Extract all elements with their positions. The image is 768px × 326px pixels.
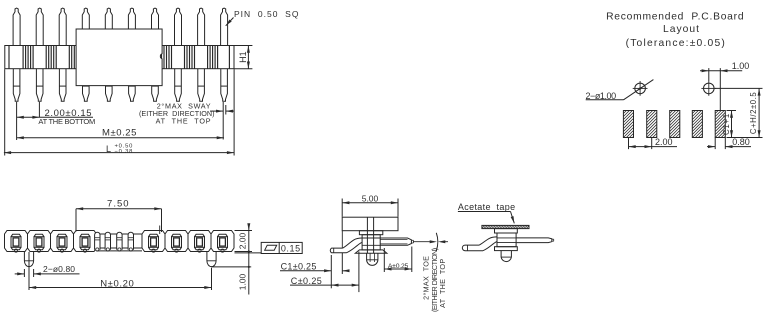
mounting peg right xyxy=(207,252,216,267)
strip segment pin 7 octagon xyxy=(142,231,165,252)
svg-text:2.00: 2.00 xyxy=(655,137,673,147)
side view solder tail right pin xyxy=(380,238,411,245)
svg-text:H1: H1 xyxy=(238,51,248,63)
svg-text:C±0.25: C±0.25 xyxy=(291,276,322,286)
svg-text:0.80: 0.80 xyxy=(732,137,750,147)
svg-text:2.00: 2.00 xyxy=(238,232,248,249)
dimension C1+1 xyxy=(731,111,733,138)
svg-text:N±0.20: N±0.20 xyxy=(100,279,134,290)
label PIN 0.50 SQ leader xyxy=(226,18,234,26)
pin 7 bottom lead xyxy=(152,69,159,102)
dimension 5.00 xyxy=(342,202,398,204)
svg-text:AT THE TOP: AT THE TOP xyxy=(438,259,447,308)
svg-text:1.00: 1.00 xyxy=(732,61,750,71)
hole circle left xyxy=(635,83,646,94)
strip segment pin 9 octagon xyxy=(188,231,211,252)
side view base plate xyxy=(355,250,387,253)
pin 4 bottom lead xyxy=(83,69,90,102)
extension housing left edge to foot xyxy=(341,231,343,248)
svg-text:1.00: 1.00 xyxy=(238,273,248,290)
flatness feature control frame xyxy=(261,242,302,253)
dimension N +/-0.20 extension line right xyxy=(211,268,213,290)
pin 10 top lead xyxy=(221,8,228,45)
dimension A +/-0.25 xyxy=(384,268,412,270)
strip segment pin 1 octagon xyxy=(5,231,28,252)
pin 9 top lead xyxy=(198,8,205,45)
svg-text:C1+1: C1+1 xyxy=(722,113,731,135)
dimension 2.00 +/-0.15 extension lines xyxy=(16,102,18,140)
dimension C +/-0.25 xyxy=(290,284,359,286)
dimension 2.00 pads xyxy=(629,146,678,148)
svg-text:−0.38: −0.38 xyxy=(115,149,134,155)
side view collar xyxy=(359,231,382,235)
dimension C1 +/-0.25 xyxy=(280,270,331,272)
pin 1 top lead xyxy=(13,8,20,45)
hole circle right xyxy=(704,83,715,94)
housing band segment lines xyxy=(9,46,229,69)
dimension C1 +/-0.25 extension lines xyxy=(330,255,332,288)
dimension 5.00 extension lines xyxy=(341,199,343,217)
pin 6 bottom lead xyxy=(129,69,136,102)
pin 5 bottom lead xyxy=(106,69,113,102)
dimension H1 extension lines xyxy=(234,45,252,47)
pin 1 bottom lead xyxy=(13,69,20,102)
mounting peg left xyxy=(24,252,33,267)
svg-text:Recommended P.C.Board: Recommended P.C.Board xyxy=(606,12,744,23)
dimension N +/-0.20 xyxy=(29,287,212,289)
break-region pin 1 xyxy=(95,232,100,250)
flatness callout leader xyxy=(235,252,262,254)
pin 8 top lead xyxy=(175,8,182,45)
side view pin through housing xyxy=(366,217,368,253)
housing band outline xyxy=(5,46,234,69)
pin 6 top lead xyxy=(128,8,135,45)
tape view mounting peg xyxy=(501,251,511,262)
svg-text:7.50: 7.50 xyxy=(107,198,130,209)
dimension 0.80 pad width extension lines xyxy=(714,138,716,150)
label acetate tape leader xyxy=(458,211,511,213)
dimension C1+1 extension lines xyxy=(727,110,737,112)
svg-text:C1±0.25: C1±0.25 xyxy=(281,261,317,271)
tape view housing cap xyxy=(495,229,518,233)
strip segment pin 1 hole detail xyxy=(11,237,21,248)
pin 7 top lead xyxy=(152,8,159,45)
dimension 7.50 xyxy=(76,208,162,210)
tape view base plate xyxy=(495,247,518,251)
hatch pattern pads xyxy=(623,111,725,138)
pin 5 top lead xyxy=(105,8,112,45)
dimension C +/-0.25 extension line xyxy=(358,252,360,293)
dimension 1.00 peg extension line xyxy=(212,266,252,268)
strip segment pin 7 hole detail xyxy=(149,237,159,248)
pin 4 top lead xyxy=(82,8,89,45)
dimension 2-dia0.80 xyxy=(15,273,25,275)
svg-text:C+H/2±0.5: C+H/2±0.5 xyxy=(749,92,758,134)
dimension L extension lines xyxy=(4,69,6,155)
strip segment pin 8 octagon xyxy=(165,231,188,252)
strip segment pin 8 hole detail xyxy=(172,237,182,248)
tape view pin level lines through body xyxy=(497,237,516,239)
dimension 2.00 and 1.00 vertical xyxy=(248,225,250,295)
svg-text:A±0.25: A±0.25 xyxy=(388,263,409,270)
pin 3 top lead xyxy=(59,8,66,45)
side view contact block xyxy=(362,235,380,250)
dimension L +0.50/-0.38 xyxy=(4,152,234,154)
dimension 2-dia0.80 extension lines xyxy=(23,269,25,277)
svg-text:Layout: Layout xyxy=(663,24,700,35)
break-region pin 2 xyxy=(105,232,110,250)
break box over middle pins xyxy=(76,29,162,86)
side view housing xyxy=(342,217,398,231)
dimension M +/-0.25 xyxy=(17,137,224,139)
svg-text:PIN 0.50 SQ: PIN 0.50 SQ xyxy=(234,9,299,19)
strip segment pin 3 octagon xyxy=(51,231,74,252)
svg-text:(Tolerance:±0.05): (Tolerance:±0.05) xyxy=(626,38,726,49)
strip segment pin 4 octagon xyxy=(74,231,97,252)
tape view body xyxy=(497,233,516,247)
strip segment pin 2 hole detail xyxy=(34,237,44,248)
dimension 0.80 pad width xyxy=(707,146,715,148)
strip segment pin 4 hole detail xyxy=(80,237,90,248)
strip segment pin 9 hole detail xyxy=(195,237,205,248)
strip segment pin 2 octagon xyxy=(28,231,51,252)
dimension A +/-0.25 extension lines xyxy=(383,248,385,272)
toe tolerance symbol xyxy=(413,241,434,243)
sway dimension ticks xyxy=(222,102,224,140)
dimension 1.00 extension lines xyxy=(708,68,710,81)
pin 2 bottom lead xyxy=(36,69,43,102)
pin 2 top lead xyxy=(36,8,43,45)
break-region pin 4 xyxy=(128,232,133,250)
dimension C+H/2 +/-0.5 xyxy=(758,88,760,137)
pin 10 bottom lead xyxy=(221,69,228,102)
dimension C+H/2 extension line xyxy=(715,87,763,89)
hole circle left leader 2-dia1.00 xyxy=(624,80,654,100)
side view mounting peg xyxy=(367,253,378,265)
side view SMT bent lead and foot xyxy=(330,238,362,253)
svg-text:5.00: 5.00 xyxy=(362,193,379,203)
svg-text:M±0.25: M±0.25 xyxy=(102,128,137,139)
dimension 7.50 extension lines xyxy=(75,209,77,232)
svg-text:L: L xyxy=(106,144,111,154)
svg-text:0.15: 0.15 xyxy=(281,243,301,253)
dimension 2.00 strip height extension lines xyxy=(235,230,253,232)
break-region pin 3 xyxy=(117,232,122,250)
pin 8 bottom lead xyxy=(175,69,182,102)
svg-text:AT THE BOTTOM: AT THE BOTTOM xyxy=(38,117,95,126)
strip segment pin 3 hole detail xyxy=(57,237,67,248)
strip break-region backbone xyxy=(97,234,143,251)
side view pin level lines through block xyxy=(362,237,380,239)
pin 3 bottom lead xyxy=(59,69,66,102)
dimension H1 xyxy=(247,46,249,69)
svg-text:2−ø0.80: 2−ø0.80 xyxy=(43,264,75,274)
acetate tape strip xyxy=(482,225,529,228)
dimension 2.00 pads extension lines xyxy=(628,138,630,150)
tape view solder tail right pin xyxy=(516,238,552,243)
pin 9 bottom lead xyxy=(198,69,205,102)
svg-text:Acetate tape: Acetate tape xyxy=(458,202,516,212)
strip segment pin 10 octagon xyxy=(211,231,234,252)
dimension 2.00 +/-0.15 xyxy=(17,116,93,118)
dimension 1.00 xyxy=(700,70,742,72)
svg-text:AT THE TOP: AT THE TOP xyxy=(156,116,212,125)
strip segment pin 10 hole detail xyxy=(218,237,228,248)
tape view SMT bent lead and foot xyxy=(462,237,497,251)
